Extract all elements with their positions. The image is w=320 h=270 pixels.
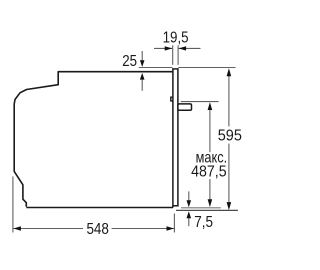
svg-text:548: 548 [86,221,109,238]
dimension 595 line [228,75,230,203]
top extension line for 595 [178,67,235,69]
dimension 548 extension line left [13,177,175,233]
dimension 548 line [13,228,83,230]
door front panel [173,69,178,206]
dimension 7,5 lower arrow [188,218,190,226]
dimension 19,5 line [154,47,172,49]
dimension 487,5 line [209,109,211,152]
dimension 595 arrowheads [227,68,232,76]
dimension 25 lower arrow line [141,79,143,90]
door trim notch [171,97,174,101]
door bottom gray reference line [181,207,221,209]
svg-text:7,5: 7,5 [194,214,213,231]
dimension 25 arrowheads [140,60,145,67]
dimension 7,5 upper arrow [188,191,190,200]
dimension 25 reference line (top of door level) [139,51,236,91]
dimension 487,5 extension line (handle top level) [181,102,219,201]
svg-text:19,5: 19,5 [163,30,189,47]
dimension 487,5 arrowheads [208,102,213,110]
door panel lower left edge [172,206,174,208]
bottom reference line [176,209,238,211]
svg-text:595: 595 [218,128,242,145]
dimension 25 upper arrow line [141,51,143,61]
svg-text:25: 25 [122,53,137,70]
svg-text:487,5: 487,5 [191,164,227,181]
dimension 548 extension line right [173,214,175,233]
door handle [178,104,192,110]
oven body outline [14,72,173,207]
dimension 19,5 extension lines [154,45,201,65]
oven bottom line [26,207,173,209]
dimension 548 arrowheads [13,226,21,230]
dimension 19,5 arrowheads [165,46,173,50]
